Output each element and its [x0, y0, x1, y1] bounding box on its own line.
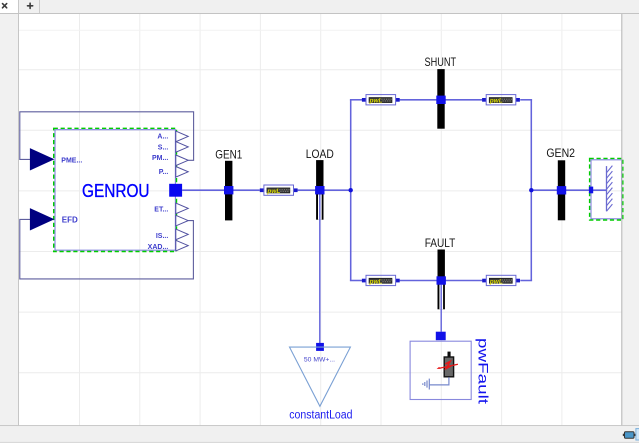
- svg-text:50 MW+...: 50 MW+...: [304, 356, 335, 363]
- pwLine4 FAULT left: [362, 275, 400, 285]
- output chevron P: [176, 167, 188, 178]
- junction B dot: [529, 188, 533, 192]
- pwLine5 FAULT right: [482, 275, 520, 285]
- wire right riser: [530, 100, 532, 281]
- output chevron XAD: [176, 240, 188, 251]
- LOAD bus channel: [318, 194, 322, 219]
- bus node FAULT: [437, 276, 446, 284]
- constantLoad port: [316, 343, 324, 351]
- wire LOAD to constantLoad: [319, 194, 321, 343]
- svg-text:GENROU: GENROU: [82, 181, 150, 201]
- bus bar SHUNT: [437, 69, 444, 129]
- pwFault red fault arrow: [437, 362, 458, 370]
- svg-text:pwFault: pwFault: [476, 338, 492, 404]
- input connector EFD triangle: [30, 209, 53, 230]
- wire genrou to pwLine1: [182, 189, 260, 191]
- genrou output port square: [169, 184, 182, 197]
- pwLine1 GEN1-LOAD: [260, 185, 298, 195]
- bus node LOAD: [315, 186, 324, 194]
- wire pwLine3 to right riser: [520, 99, 532, 101]
- svg-text:constantLoad: constantLoad: [289, 410, 352, 422]
- svg-text:A...: A...: [157, 133, 168, 140]
- pwFault ground connection wire: [429, 377, 449, 385]
- svg-text:EFD: EFD: [62, 215, 78, 224]
- wire shunt branch left: [350, 99, 362, 101]
- wire junction B to infinite bus: [531, 189, 606, 191]
- pwFault ground symbol: [423, 379, 430, 390]
- wire SHUNT to pwLine3: [445, 99, 483, 101]
- svg-text:XAD...: XAD...: [148, 244, 169, 251]
- output chevron IS: [176, 229, 188, 240]
- bus bar LOAD: [316, 160, 323, 220]
- status bar right button: [636, 429, 639, 440]
- wire FAULT to pwLine5: [445, 280, 482, 282]
- svg-text:PME...: PME...: [61, 157, 82, 164]
- tab plus icon: [28, 3, 33, 8]
- infinite bus box: [590, 158, 623, 220]
- wire pwLine4 to FAULT: [400, 280, 438, 282]
- wire feedback loop EFD0 output to EFD input: [20, 219, 194, 279]
- pwFault box: [410, 341, 471, 399]
- output chevron A: [176, 131, 188, 142]
- wire left riser: [350, 100, 352, 281]
- window bottom edge: [0, 441, 639, 443]
- svg-text:P...: P...: [159, 169, 169, 176]
- pwFault breaker body: [444, 357, 453, 377]
- svg-text:S...: S...: [158, 144, 169, 151]
- output chevron ET: [176, 203, 188, 214]
- wire feedback loop PM output to PME input: [20, 112, 194, 161]
- wire pwLine1 to junction A: [298, 189, 351, 191]
- svg-text:PM...: PM...: [152, 155, 168, 162]
- pwFault port: [436, 332, 446, 341]
- FAULT bus channel: [439, 285, 443, 310]
- genrou block U1 body: [54, 128, 177, 251]
- bus bar GEN1: [225, 161, 232, 221]
- svg-text:FAULT: FAULT: [425, 236, 456, 250]
- wire pwLine5 to right riser: [520, 280, 532, 282]
- status bar: [0, 426, 639, 443]
- bus node GEN2: [557, 186, 566, 194]
- tab close icon: [3, 4, 7, 8]
- infinite bus port: [589, 187, 593, 194]
- svg-text:LOAD: LOAD: [306, 147, 334, 161]
- svg-text:SHUNT: SHUNT: [425, 55, 457, 69]
- pwLine2 SHUNT left: [362, 95, 400, 105]
- tab bar: [0, 0, 639, 14]
- output chevron S: [176, 142, 188, 153]
- output chevron EFD0: [176, 215, 188, 226]
- input connector PME triangle: [30, 149, 53, 170]
- constantLoad triangle: [290, 347, 351, 406]
- pwLine3 SHUNT right: [482, 95, 520, 105]
- wire fault branch left: [350, 280, 362, 282]
- output chevron PM: [176, 155, 188, 166]
- wire pwLine2 to SHUNT: [400, 99, 438, 101]
- svg-text:IS...: IS...: [156, 233, 169, 240]
- pwFault breaker stub: [448, 352, 451, 357]
- svg-text:ET...: ET...: [154, 206, 168, 213]
- junction A dot: [349, 188, 353, 192]
- svg-text:GEN2: GEN2: [546, 146, 575, 160]
- svg-text:GEN1: GEN1: [215, 147, 242, 161]
- wire FAULT to pwFault: [440, 285, 442, 332]
- bus node GEN1: [224, 186, 233, 194]
- bus bar FAULT: [438, 250, 445, 310]
- status bar component icon: [623, 432, 636, 439]
- bus node SHUNT: [436, 96, 445, 104]
- infinite bus vertical line: [606, 166, 608, 211]
- bus bar GEN2: [558, 160, 565, 220]
- infinite bus hatches: [607, 166, 613, 212]
- grid horizontal lines: [19, 30, 622, 372]
- grid vertical lines: [80, 14, 562, 425]
